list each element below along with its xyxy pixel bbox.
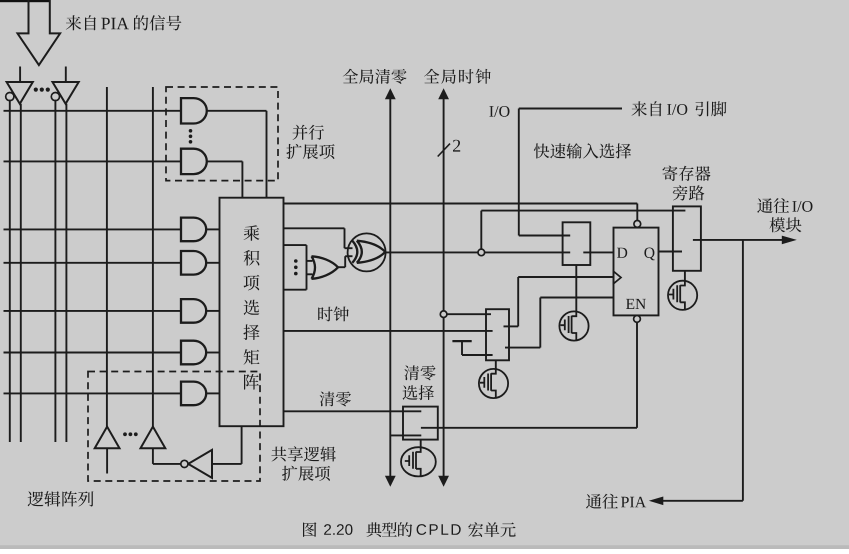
array column 3 (B2 inverted) xyxy=(54,100,56,442)
feedback column 5 xyxy=(106,87,108,427)
AND gate PE1 xyxy=(181,98,207,123)
array row 7 xyxy=(4,392,182,394)
clear select mux box xyxy=(403,407,438,440)
wire matrix to DFF preset xyxy=(284,203,638,205)
wire PE1 output xyxy=(207,110,267,112)
label: from I/O pin xyxy=(632,101,662,116)
AND gate G1 xyxy=(181,218,206,242)
DFF clear bubble xyxy=(634,316,641,323)
array row 4 xyxy=(4,262,182,264)
D flip-flop U2 xyxy=(614,228,659,316)
array row 3 xyxy=(4,228,182,230)
wire OR output to XOR xyxy=(338,266,345,268)
wire G3 output xyxy=(207,310,220,312)
label: clock xyxy=(318,306,349,321)
array row 6 xyxy=(4,352,182,354)
label I/O xyxy=(489,106,509,117)
pin label EN xyxy=(626,299,646,309)
ellipsis shared expander xyxy=(123,432,127,436)
array column 4 (B2 true) xyxy=(65,104,67,442)
VCC stub xyxy=(452,340,471,342)
label: to PIA xyxy=(586,494,618,509)
wire G1 output xyxy=(207,228,220,230)
AND gate G2 xyxy=(181,251,206,275)
ellipsis expander gates xyxy=(189,129,193,133)
bus width slash 2 xyxy=(438,144,450,157)
label: logic array xyxy=(28,491,94,506)
wire global clear tap xyxy=(390,434,421,436)
wire feedback to PIA xyxy=(742,240,744,501)
DFF preset bubble xyxy=(634,221,641,228)
pin label D xyxy=(617,248,627,258)
pin label Q xyxy=(644,248,654,261)
label: shared logic expander xyxy=(271,446,336,461)
wire G4 output xyxy=(207,352,220,354)
array column 2 (B1 true) xyxy=(20,104,22,442)
wire to I/O block with arrow xyxy=(693,239,783,241)
array row 1 xyxy=(4,110,182,112)
wire clock mux to DFF EN xyxy=(505,347,540,349)
AND gate G3 xyxy=(181,299,206,323)
junction tap on global clock xyxy=(440,311,447,318)
global clock net xyxy=(424,69,491,84)
AND gate G4 xyxy=(181,341,206,365)
feedback column 6 xyxy=(152,87,154,427)
product term select matrix box xyxy=(220,198,284,427)
label: from PIA signal xyxy=(66,15,96,30)
wire clock mux to DFF clock xyxy=(504,325,519,327)
label: to I/O block xyxy=(757,198,789,213)
global clear net xyxy=(343,69,407,84)
fast input select mux xyxy=(563,222,591,265)
wire G5 output xyxy=(207,392,220,394)
clear select transistor xyxy=(420,440,422,448)
inverter (shared expander) xyxy=(188,450,212,478)
ellipsis OR inputs xyxy=(294,259,298,263)
label: product term select matrix (vertical) xyxy=(243,225,259,389)
wire Q output xyxy=(659,251,683,253)
page edge mark xyxy=(0,0,51,2)
wire XOR output / D line xyxy=(386,251,571,253)
parallel expander dashed box xyxy=(166,87,278,181)
array row 2 xyxy=(4,160,182,162)
bypass mux select transistor xyxy=(684,271,686,281)
page bottom strip xyxy=(0,545,849,549)
register bypass mux box xyxy=(673,206,701,270)
input buffer B1 xyxy=(19,67,21,83)
wire clear product term xyxy=(284,410,422,412)
array column 1 (B1 inverted) xyxy=(9,100,11,442)
label: fast input select xyxy=(534,143,631,158)
wire PE2 output xyxy=(207,160,243,162)
array row 5 xyxy=(4,310,182,312)
label: clear xyxy=(320,392,351,407)
wire clear select to DFF clear xyxy=(421,427,637,429)
input arrow from PIA xyxy=(18,0,61,65)
input buffer B2 xyxy=(65,67,67,83)
junction tap to bypass xyxy=(478,249,485,256)
wire from I/O pin xyxy=(519,108,622,110)
wire G2 output xyxy=(207,262,220,264)
DFF clock triangle xyxy=(614,271,622,283)
shared logic expander dashed box xyxy=(88,372,260,482)
wire matrix to OR bracket xyxy=(284,244,307,246)
figure caption xyxy=(303,522,316,537)
buffer T1 (shared expander) xyxy=(95,427,120,449)
AND gate G5 xyxy=(181,382,206,406)
fast mux select transistor xyxy=(575,265,577,312)
wire matrix to XOR top input xyxy=(284,227,345,229)
label: register bypass xyxy=(662,166,710,181)
wire matrix bottom to inverter xyxy=(241,426,243,464)
label: parallel expander xyxy=(293,125,325,140)
ellipsis between buffers xyxy=(34,88,38,92)
clock mux select transistor xyxy=(495,360,497,369)
buffer T2 (shared expander) xyxy=(141,427,166,449)
wire clock product term xyxy=(284,330,493,332)
clock select mux box xyxy=(486,309,509,360)
AND gate PE2 xyxy=(181,149,207,174)
OR gate xyxy=(312,256,339,279)
XOR gate U1 xyxy=(348,233,386,271)
label: clear select xyxy=(404,365,435,380)
